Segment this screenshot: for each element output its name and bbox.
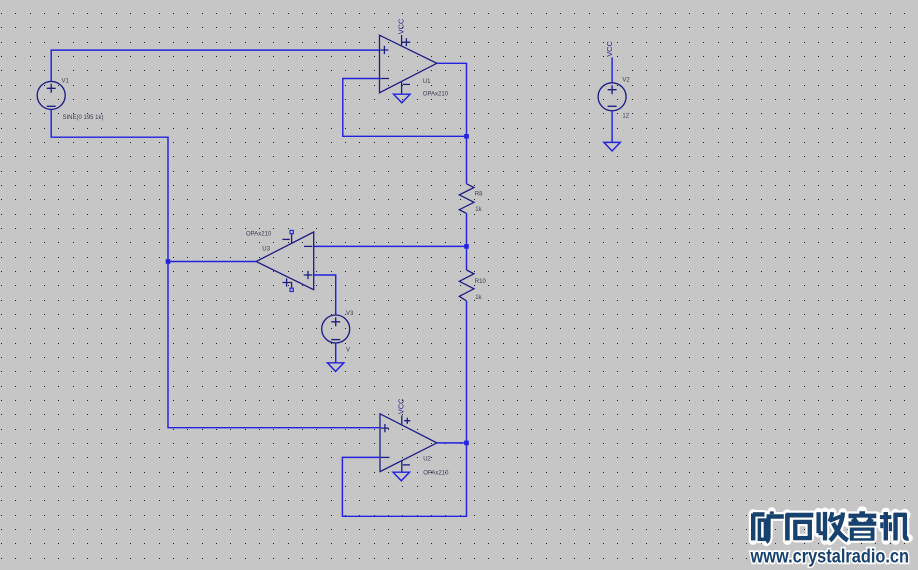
wire V1 bottom, down-right-down to U2 +input — [51, 109, 380, 427]
ground under V3 — [327, 363, 343, 372]
junction U1 feedback/output — [464, 134, 469, 139]
watermark logo 矿石收音机 — [753, 511, 909, 542]
op-amp U2 — [380, 414, 437, 472]
svg-text:U1: U1 — [423, 79, 431, 85]
wire U3 +input to V3 — [314, 275, 336, 315]
wire U3 -input to node — [314, 245, 467, 247]
svg-text:R8: R8 — [475, 191, 483, 197]
svg-text:OPAx210: OPAx210 — [423, 92, 449, 98]
junction at x168 — [166, 259, 171, 264]
junction U2 output — [464, 441, 469, 446]
voltage source V3 — [322, 315, 350, 343]
svg-text:VCC: VCC — [605, 41, 614, 57]
open terminal square U3 V- top — [290, 230, 293, 233]
wire U1 feedback — [343, 79, 467, 137]
svg-text:VCC: VCC — [397, 398, 406, 414]
voltage source V2 — [598, 83, 626, 111]
svg-text:OPAx210: OPAx210 — [246, 232, 272, 238]
open terminal square U3 V+ bottom — [290, 288, 293, 291]
svg-text:1k: 1k — [475, 295, 482, 301]
op-amp U1 — [380, 35, 437, 94]
svg-text:V2: V2 — [622, 78, 630, 84]
svg-text:1k: 1k — [475, 207, 482, 213]
svg-text:12: 12 — [622, 114, 629, 120]
ground under U2 — [393, 472, 409, 481]
wire R8 to node — [466, 213, 468, 246]
resistor R10 — [466, 246, 468, 270]
wire VCC to V2 — [611, 57, 613, 83]
svg-text:V1: V1 — [62, 79, 70, 85]
op-amp U3 (pointing left) — [256, 232, 314, 290]
wire node to U3 output — [168, 261, 256, 263]
resistor R8 — [459, 184, 474, 214]
svg-text:V3: V3 — [346, 311, 354, 317]
svg-text:V: V — [346, 348, 350, 354]
svg-text:SINE(0 195 1k): SINE(0 195 1k) — [63, 115, 104, 121]
wire U2 output — [437, 442, 467, 444]
voltage source V1 — [37, 81, 65, 109]
svg-text:U3: U3 — [262, 246, 270, 252]
svg-text:U2: U2 — [423, 456, 431, 462]
wire V2 to ground — [611, 111, 613, 143]
wire U2 feedback — [342, 443, 466, 516]
logo white details — [854, 518, 871, 539]
junction R8/R10 node — [464, 244, 469, 249]
wire U1 output down to R8 — [437, 63, 467, 184]
wire V3 to ground — [335, 343, 337, 363]
ground under V2 — [604, 142, 620, 151]
wire V1 top to U1 +input — [51, 50, 379, 81]
ground under U1 — [394, 94, 410, 103]
svg-text:R10: R10 — [475, 279, 487, 285]
svg-text:www.crystalradio.cn: www.crystalradio.cn — [750, 546, 909, 568]
svg-text:OPAx210: OPAx210 — [423, 471, 449, 477]
svg-text:VCC: VCC — [397, 18, 406, 34]
